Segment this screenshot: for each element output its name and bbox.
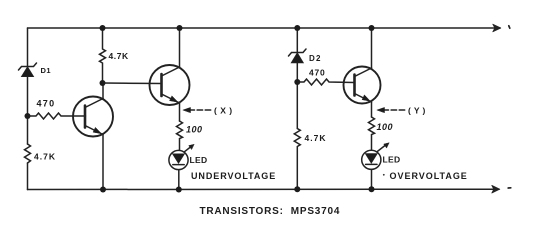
junction dot Q2 collector on top rail — [177, 25, 183, 31]
LED D3 undervoltage — [169, 144, 194, 169]
node A junction (left divider tap) — [25, 113, 31, 119]
transistor Q1 — [73, 97, 113, 137]
LED D4 overvoltage — [362, 143, 389, 170]
junction dot LED chain on bottom rail — [176, 187, 182, 193]
wire D1 to node A — [27, 77, 29, 145]
wire Q2 collector to top rail — [179, 28, 181, 67]
junction dot right LED chain on bottom rail — [369, 186, 375, 192]
wire right LED to bottom rail — [371, 169, 373, 189]
junction dot Q1 emitter on bottom rail — [100, 187, 106, 193]
svg-text:4.7K: 4.7K — [109, 51, 129, 61]
svg-text:4.7K: 4.7K — [305, 133, 327, 143]
resistor 4.7K right (node C to bottom rail) — [294, 129, 300, 190]
svg-text:LED: LED — [383, 155, 401, 165]
svg-text:TRANSISTORS: MPS3704: TRANSISTORS: MPS3704 — [200, 206, 341, 217]
transistor Q2 — [150, 65, 190, 105]
wire below lower 4.7K to bottom rail — [27, 163, 29, 190]
junction dot Q3 collector on top rail — [369, 25, 375, 31]
wire LED to bottom rail — [178, 170, 180, 190]
resistor 470 left (node A to Q1 base) — [28, 113, 86, 119]
svg-text:UNDERVOLTAGE: UNDERVOLTAGE — [191, 171, 276, 181]
svg-text:100: 100 — [377, 122, 394, 132]
arrow top rail right — [493, 24, 501, 32]
transistor Q3 — [344, 67, 381, 104]
resistor 470 right (node C to Q3 base) — [297, 79, 354, 85]
zener diode D2 — [289, 49, 307, 63]
junction dot D2 branch on top rail — [294, 25, 300, 31]
svg-text:4.7K: 4.7K — [34, 151, 56, 161]
svg-text:(Y): (Y) — [408, 106, 428, 116]
svg-text:100: 100 — [186, 124, 203, 134]
wire Q1 collector up to node B — [102, 83, 104, 99]
wire bottom rail — [28, 188, 500, 190]
label (X) with pointer arrow — [183, 107, 213, 112]
arrow bottom rail right — [492, 185, 500, 193]
wire top rail — [28, 27, 501, 29]
node C junction — [294, 79, 300, 85]
svg-text:D1: D1 — [41, 66, 52, 75]
resistor 4.7K lower-left — [25, 144, 31, 163]
svg-text:470: 470 — [37, 98, 56, 108]
wire Q3 emitter down to 100 resistor — [371, 102, 373, 117]
wire Q1 emitter down to bottom rail — [102, 135, 104, 190]
wire D2 to node C — [296, 63, 298, 129]
node dot after bottom arrow — [508, 187, 511, 189]
dot before OVERVOLTAGE label — [383, 174, 385, 176]
resistor 100 right — [369, 117, 375, 150]
wire left vertical (top rail to D1) — [27, 28, 29, 67]
svg-text:470: 470 — [309, 68, 326, 78]
wire node B to Q2 base — [103, 82, 162, 85]
label (Y) with pointer arrow — [377, 107, 406, 112]
wire Q3 collector to top rail — [371, 28, 373, 68]
zener diode D1 — [19, 63, 37, 77]
junction dot 4.7K top on rail — [100, 25, 106, 31]
node B junction — [100, 80, 106, 86]
wire Q2 emitter down to 100 resistor — [179, 103, 181, 121]
svg-text:OVERVOLTAGE: OVERVOLTAGE — [390, 171, 468, 181]
svg-text:D2: D2 — [309, 54, 322, 63]
node dot after top arrow — [509, 26, 510, 28]
junction dot 4.7K right on bottom rail — [294, 186, 300, 192]
svg-text:(X): (X) — [214, 106, 236, 116]
resistor 100 left — [177, 121, 183, 150]
svg-text:LED: LED — [190, 155, 208, 165]
wire right vertical (top rail to D2) — [296, 28, 298, 53]
resistor 4.7K upper-left (rail to node B) — [100, 28, 106, 83]
